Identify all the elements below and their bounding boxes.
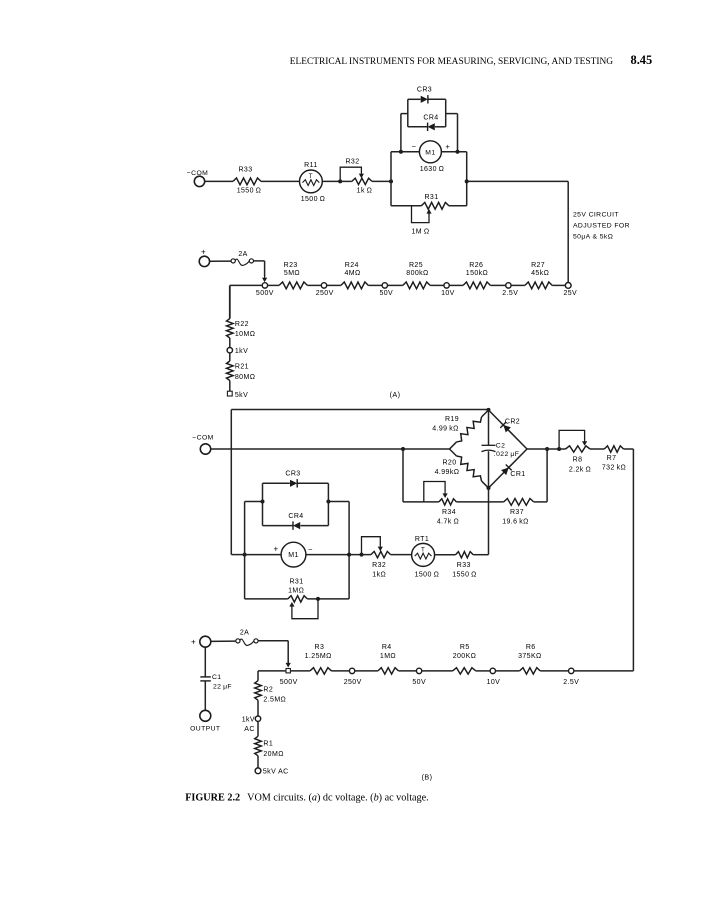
wire — [257, 700, 259, 716]
wire — [257, 721, 259, 736]
svg-text:1550 Ω: 1550 Ω — [237, 188, 262, 195]
wire meter row left (B) — [231, 554, 244, 556]
resistor R7 732kohm — [604, 446, 623, 452]
svg-text:45kΩ: 45kΩ — [531, 270, 549, 277]
svg-text:2.5MΩ: 2.5MΩ — [263, 697, 286, 704]
meter M1 1630ohm (A) — [419, 141, 441, 163]
node 50V (B) — [416, 668, 421, 673]
diode CR3 (B) — [263, 482, 290, 484]
wire — [449, 284, 463, 286]
wire — [540, 670, 568, 672]
wire bridge bottom to meter row — [488, 488, 490, 555]
meter block outer wires (B) — [244, 502, 246, 599]
terminal OUTPUT (B) — [200, 710, 211, 721]
junction dot R32 (B) — [360, 553, 364, 557]
resistor R31 1Mohm (A) — [391, 205, 421, 207]
svg-text:R25: R25 — [409, 262, 423, 269]
svg-text:1M Ω: 1M Ω — [412, 229, 430, 236]
svg-text:CR4: CR4 — [288, 513, 303, 520]
svg-text:1500 Ω: 1500 Ω — [301, 196, 326, 203]
wire row (A) — [230, 284, 262, 286]
node 500V square (B) — [286, 669, 290, 673]
thermistor R11 1500ohm — [300, 170, 323, 193]
svg-text:80MΩ: 80MΩ — [235, 374, 255, 381]
wire HV column (A) — [229, 285, 231, 318]
svg-text:(A): (A) — [390, 390, 401, 399]
resistor R33 1550ohm (B) — [456, 552, 474, 558]
node 10V (A) — [444, 283, 449, 288]
svg-text:732 kΩ: 732 kΩ — [602, 465, 626, 472]
svg-text:M1: M1 — [288, 552, 299, 559]
svg-text:CR3: CR3 — [285, 471, 300, 478]
node 1kV (A) — [227, 348, 232, 353]
wire — [552, 284, 565, 286]
wire — [258, 640, 288, 642]
svg-text:1.25MΩ: 1.25MΩ — [305, 653, 332, 660]
wire down to 25V terminal — [567, 181, 569, 282]
junction dot — [261, 500, 265, 504]
resistor element R32 (B) — [349, 554, 371, 556]
junction dot — [338, 179, 342, 183]
wire — [574, 670, 634, 672]
wire right side down (B) — [624, 448, 634, 450]
svg-text:−: − — [412, 142, 417, 151]
svg-text:OUTPUT: OUTPUT — [190, 726, 220, 733]
fuse 2A (A) — [231, 259, 235, 263]
svg-text:25V CIRCUIT: 25V CIRCUIT — [573, 212, 619, 219]
svg-text:(B): (B) — [422, 773, 433, 782]
svg-text:R20: R20 — [442, 460, 456, 467]
wire — [210, 260, 232, 262]
bridge arm diode CR2 — [489, 410, 528, 449]
resistor R25 800kohm — [403, 282, 430, 289]
svg-text:+: + — [191, 638, 196, 647]
svg-text:800kΩ: 800kΩ — [406, 270, 428, 277]
terminal 25V (A) — [565, 283, 571, 289]
node 500V (A) — [262, 283, 267, 288]
svg-text:150kΩ: 150kΩ — [466, 270, 488, 277]
svg-text:10V: 10V — [441, 290, 455, 297]
resistor R3 1.25Mohm — [310, 668, 332, 674]
wire R34 branch (B) — [402, 449, 404, 502]
svg-text:4MΩ: 4MΩ — [345, 270, 361, 277]
wire meter row (A) — [391, 151, 419, 153]
wire — [355, 670, 378, 672]
junction dot — [326, 500, 330, 504]
svg-text:1630 Ω: 1630 Ω — [420, 166, 445, 173]
svg-text:R32: R32 — [345, 159, 359, 166]
wire — [254, 260, 265, 262]
svg-text:R26: R26 — [469, 262, 483, 269]
svg-text:R6: R6 — [526, 644, 536, 651]
svg-text:ELECTRICAL INSTRUMENTS FOR MEA: ELECTRICAL INSTRUMENTS FOR MEASURING, SE… — [290, 57, 613, 67]
rheostat R32 1kohm (B) wiper loop — [362, 537, 381, 555]
wire — [205, 180, 233, 182]
diode CR4 (A) — [408, 126, 428, 128]
svg-text:T: T — [309, 173, 313, 180]
meter M1 (B) — [245, 554, 282, 556]
svg-text:R27: R27 — [531, 262, 545, 269]
wire to 25V circuit — [467, 180, 569, 182]
diode CR4 (B) — [263, 525, 293, 527]
svg-text:5MΩ: 5MΩ — [284, 270, 300, 277]
resistor R6 375Kohm — [520, 668, 541, 674]
svg-text:4.99 kΩ: 4.99 kΩ — [432, 426, 459, 433]
svg-text:2.5V: 2.5V — [563, 679, 579, 686]
svg-text:R33: R33 — [238, 167, 252, 174]
svg-text:R22: R22 — [235, 321, 249, 328]
bridge arm resistor R19 4.99kohm — [447, 408, 490, 451]
wire — [229, 353, 231, 361]
wire — [435, 554, 456, 556]
svg-text:200KΩ: 200KΩ — [453, 653, 477, 660]
resistor R27 45kohm — [525, 282, 552, 289]
wire — [391, 554, 412, 556]
resistor R2 2.5Mohm — [255, 681, 262, 701]
wire — [534, 501, 547, 503]
svg-text:4.7k Ω: 4.7k Ω — [437, 519, 459, 526]
resistor R26 150kohm — [463, 282, 490, 289]
wire — [261, 180, 300, 182]
svg-text:R21: R21 — [235, 364, 249, 371]
svg-text:R32: R32 — [372, 562, 386, 569]
wire — [327, 284, 341, 286]
svg-text:+: + — [201, 248, 206, 257]
terminal 5kV square (A) — [227, 391, 232, 396]
junction dot — [557, 447, 561, 451]
svg-text:1kΩ: 1kΩ — [372, 572, 386, 579]
resistor R24 4Mohm — [341, 282, 368, 289]
rheostat R34 4.7kohm wiper loop — [424, 482, 445, 502]
svg-text:.022 μF: .022 μF — [494, 451, 519, 458]
capacitor C1 22uF — [204, 647, 206, 677]
wire — [495, 670, 519, 672]
rheostat R8 2.2kohm wiper loop — [559, 430, 585, 449]
svg-text:20MΩ: 20MΩ — [263, 751, 283, 758]
junction dot — [545, 447, 549, 451]
R31 wiper loop (A) — [412, 206, 430, 223]
junction dot bridge bottom — [487, 486, 491, 490]
resistor R37 19.6kohm — [504, 499, 534, 506]
diode box wires (B) — [262, 483, 264, 525]
junction dot — [347, 553, 351, 557]
svg-text:CR2: CR2 — [505, 419, 520, 426]
wire — [257, 756, 259, 768]
svg-text:500V: 500V — [280, 679, 298, 686]
arrow into 500V node (B) — [287, 661, 289, 665]
junction dot — [456, 150, 460, 154]
junction node left of meter bridge (A) — [389, 179, 393, 183]
node 2.5V (B) — [569, 668, 574, 673]
svg-text:CR4: CR4 — [423, 115, 438, 122]
svg-text:C2: C2 — [496, 443, 506, 450]
wire — [229, 338, 231, 348]
svg-text:R4: R4 — [382, 644, 392, 651]
svg-text:T: T — [421, 547, 425, 554]
wire — [590, 448, 604, 450]
resistor R5 200Kohm — [453, 668, 476, 674]
svg-text:10MΩ: 10MΩ — [235, 331, 255, 338]
resistor R4 1Mohm — [378, 668, 399, 674]
R31 wiper loop (B) — [292, 599, 318, 619]
wire — [372, 180, 391, 182]
svg-text:R23: R23 — [284, 262, 298, 269]
svg-text:50μA & 5kΩ: 50μA & 5kΩ — [573, 234, 613, 241]
junction dot bridge top — [487, 408, 491, 412]
svg-text:R2: R2 — [263, 687, 273, 694]
wire — [229, 381, 231, 392]
svg-text:R19: R19 — [445, 416, 459, 423]
wire — [332, 670, 350, 672]
resistor element R34 — [439, 499, 457, 505]
bridge arm resistor R20 4.99kohm — [447, 447, 490, 490]
resistor element R8 — [559, 448, 565, 450]
wire row left to R2 column (B) — [258, 670, 286, 672]
svg-text:1kV: 1kV — [242, 716, 255, 723]
svg-text:R8: R8 — [573, 457, 583, 464]
svg-text:R3: R3 — [315, 644, 325, 651]
svg-text:50V: 50V — [412, 679, 426, 686]
svg-text:1MΩ: 1MΩ — [288, 588, 304, 595]
wire top net (B) — [231, 409, 488, 411]
svg-text:R37: R37 — [510, 509, 524, 516]
resistor R23 5Mohm — [279, 282, 307, 289]
resistor element R32 (A) — [340, 180, 352, 182]
wire — [422, 670, 453, 672]
bridge arm diode CR1 — [489, 449, 528, 488]
svg-text:ADJUSTED FOR: ADJUSTED FOR — [573, 223, 630, 230]
fuse 2A (B) — [236, 639, 240, 643]
svg-text:FIGURE 2.2VOM circuits. (a) dc: FIGURE 2.2VOM circuits. (a) dc voltage. … — [185, 792, 429, 803]
resistor R1 20Mohm — [255, 736, 262, 756]
svg-text:R7: R7 — [607, 455, 617, 462]
svg-text:5kV: 5kV — [235, 392, 248, 399]
svg-text:M1: M1 — [425, 149, 435, 156]
svg-text:2.5V: 2.5V — [502, 290, 518, 297]
node 1kV AC (B) — [255, 716, 260, 721]
svg-text:2.2k Ω: 2.2k Ω — [569, 467, 591, 474]
junction dot — [399, 150, 403, 154]
wire row (B) — [290, 670, 310, 672]
svg-text:1550 Ω: 1550 Ω — [452, 572, 477, 579]
terminal 5kV AC (B) — [255, 768, 261, 774]
resistor R33 1550ohm (A) — [233, 178, 261, 185]
svg-text:R34: R34 — [442, 509, 456, 516]
junction dot — [316, 597, 320, 601]
node 50V (A) — [382, 283, 387, 288]
svg-text:CR1: CR1 — [510, 471, 525, 478]
svg-text:AC: AC — [244, 726, 255, 733]
svg-text:1MΩ: 1MΩ — [380, 653, 396, 660]
svg-text:10V: 10V — [487, 679, 501, 686]
svg-text:1kV: 1kV — [235, 348, 248, 355]
node 10V (B) — [490, 668, 495, 673]
svg-text:375KΩ: 375KΩ — [518, 653, 542, 660]
svg-text:R31: R31 — [424, 194, 438, 201]
svg-text:R11: R11 — [304, 162, 318, 169]
wire — [430, 284, 444, 286]
svg-text:+: + — [445, 142, 450, 151]
svg-text:R5: R5 — [460, 644, 470, 651]
wire — [476, 670, 490, 672]
svg-text:1k Ω: 1k Ω — [357, 187, 373, 194]
resistor R22 10Mohm — [227, 319, 234, 338]
wire — [387, 284, 402, 286]
wire — [368, 284, 382, 286]
junction dot — [401, 447, 405, 451]
svg-text:22 μF: 22 μF — [213, 684, 232, 691]
svg-text:C1: C1 — [212, 674, 222, 681]
node 250V (B) — [349, 668, 354, 673]
diode CR3 (A) — [408, 98, 421, 100]
svg-text:50V: 50V — [379, 290, 393, 297]
svg-text:250V: 250V — [316, 290, 334, 297]
node 250V (A) — [321, 283, 326, 288]
svg-text:CR3: CR3 — [417, 87, 432, 94]
svg-text:1500 Ω: 1500 Ω — [415, 572, 440, 579]
svg-text:4.99kΩ: 4.99kΩ — [435, 469, 460, 476]
arrow into 500V node (A) — [264, 275, 266, 279]
rheostat R32 1kohm (A) wiper loop — [340, 167, 361, 181]
svg-text:R1: R1 — [263, 741, 273, 748]
wire — [211, 640, 236, 642]
svg-text:−COM: −COM — [192, 435, 213, 442]
wire — [307, 284, 321, 286]
meter bridge left wire (A) — [390, 152, 392, 206]
junction dot — [243, 553, 247, 557]
svg-text:RT1: RT1 — [415, 536, 429, 543]
svg-text:R31: R31 — [289, 579, 303, 586]
svg-text:8.45: 8.45 — [631, 53, 653, 67]
wire diode loop (A) — [400, 114, 402, 152]
node 2.5V (A) — [506, 283, 511, 288]
wire output net (B) — [527, 448, 559, 450]
wire — [322, 180, 340, 182]
capacitor C2 .022uF — [488, 410, 490, 445]
wire — [456, 501, 503, 503]
wire — [511, 284, 525, 286]
svg-text:250V: 250V — [344, 679, 362, 686]
thermistor RT1 1500ohm — [412, 543, 435, 566]
svg-text:2A: 2A — [240, 629, 249, 636]
svg-text:19.6 kΩ: 19.6 kΩ — [502, 519, 529, 526]
resistor R31 1Mohm (B) — [245, 598, 288, 600]
svg-text:2A: 2A — [238, 251, 247, 258]
wire — [399, 670, 417, 672]
svg-text:+: + — [273, 545, 278, 554]
svg-text:500V: 500V — [256, 290, 274, 297]
meter bridge right wire (A) — [466, 152, 468, 206]
svg-text:5kV AC: 5kV AC — [263, 768, 289, 775]
svg-text:R33: R33 — [457, 562, 471, 569]
svg-text:25V: 25V — [563, 290, 577, 297]
svg-text:−: − — [308, 545, 313, 554]
resistor R21 80Mohm — [227, 361, 234, 381]
wire — [490, 284, 505, 286]
wire — [473, 554, 488, 556]
wire -COM to bridge (B) — [211, 448, 450, 450]
svg-text:R24: R24 — [345, 262, 359, 269]
